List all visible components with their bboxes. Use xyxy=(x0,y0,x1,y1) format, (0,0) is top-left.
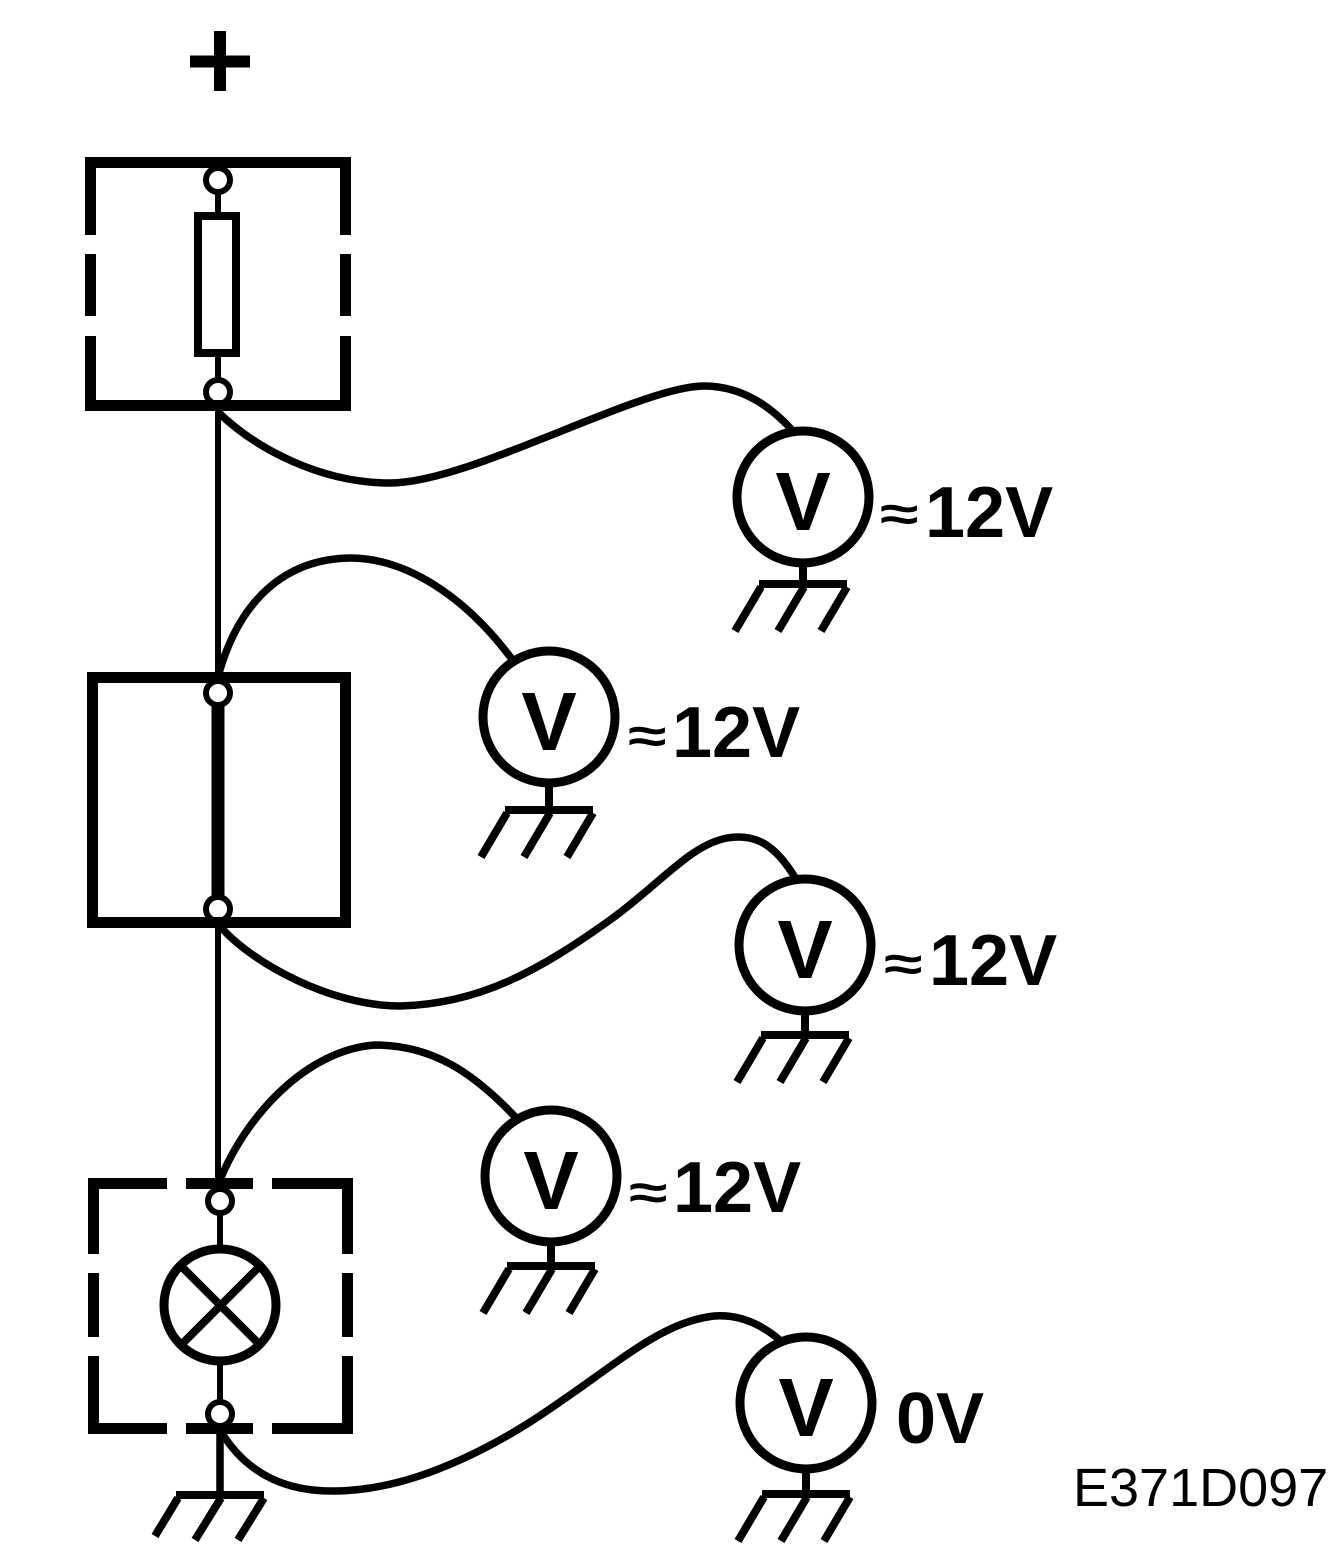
svg-text:E371D097: E371D097 xyxy=(1073,1458,1328,1518)
svg-text:0V: 0V xyxy=(896,1379,984,1459)
svg-text:12V: 12V xyxy=(925,473,1053,553)
svg-text:12V: 12V xyxy=(673,1148,801,1228)
svg-text:12V: 12V xyxy=(672,693,800,773)
svg-text:V: V xyxy=(523,1134,578,1227)
svg-text:V: V xyxy=(778,1361,833,1454)
svg-text:≈: ≈ xyxy=(629,1164,667,1219)
svg-text:≈: ≈ xyxy=(628,708,666,763)
svg-text:V: V xyxy=(775,455,830,548)
svg-text:≈: ≈ xyxy=(884,936,922,991)
svg-text:≈: ≈ xyxy=(880,486,918,541)
svg-text:12V: 12V xyxy=(929,921,1057,1001)
svg-text:V: V xyxy=(521,675,576,768)
svg-text:V: V xyxy=(777,903,832,996)
